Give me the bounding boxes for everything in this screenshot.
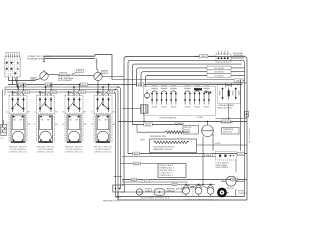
svg-text:BK/R: BK/R xyxy=(141,139,146,141)
svg-text:L2: L2 xyxy=(91,124,93,126)
svg-text:L2: L2 xyxy=(62,124,64,126)
svg-text:RD-1: RD-1 xyxy=(168,190,172,192)
svg-text:HIDDEN BAKE ELEMENT (S) A: HIDDEN BAKE ELEMENT (S) A xyxy=(141,196,170,199)
svg-text:RD2: RD2 xyxy=(103,72,107,74)
svg-text:OVEN DOOR SW: OVEN DOOR SW xyxy=(248,128,250,143)
svg-text:L2: L2 xyxy=(6,124,8,126)
svg-text:CONV 4 W-1 1: CONV 4 W-1 1 xyxy=(160,175,174,177)
svg-text:AB GY-30 WH: AB GY-30 WH xyxy=(221,121,234,124)
svg-text:H2: H2 xyxy=(113,124,115,126)
svg-text:RD-8: RD-8 xyxy=(135,163,139,165)
svg-text:SWITCH 2: SWITCH 2 xyxy=(223,131,232,133)
svg-text:BU-1: BU-1 xyxy=(144,181,148,183)
svg-text:L1: L1 xyxy=(6,111,8,113)
svg-text:BU-1: BU-1 xyxy=(134,153,138,155)
svg-text:SUP ELEMENT: SUP ELEMENT xyxy=(58,80,73,82)
svg-text:BK A-1: BK A-1 xyxy=(116,196,121,199)
svg-text:L1: L1 xyxy=(62,111,64,113)
svg-text:GY-30 BU: GY-30 BU xyxy=(215,75,224,77)
svg-text:BK-30: BK-30 xyxy=(145,124,150,126)
svg-text:H1: H1 xyxy=(55,111,57,113)
svg-text:RD-8: RD-8 xyxy=(109,92,113,94)
svg-text:RD-6: RD-6 xyxy=(82,84,86,86)
svg-text:L-CORD: L-CORD xyxy=(196,117,204,119)
svg-text:H2: H2 xyxy=(28,124,30,126)
svg-text:(WIRING CIRCUIT): (WIRING CIRCUIT) xyxy=(37,151,54,153)
svg-text:LOWER # EL PROTECTOR (S): LOWER # EL PROTECTOR (S) xyxy=(185,199,214,201)
svg-text:BROIL 240V (2): BROIL 240V (2) xyxy=(218,108,232,110)
svg-text:GY30: GY30 xyxy=(238,154,243,156)
svg-text:CONVECT: CONVECT xyxy=(238,193,248,195)
svg-text:BAKE ASSY W10-P2: BAKE ASSY W10-P2 xyxy=(154,148,174,151)
svg-text:RESISTANCE FILM: RESISTANCE FILM xyxy=(150,135,166,138)
svg-text:L2: L2 xyxy=(34,124,36,126)
svg-text:RD-8: RD-8 xyxy=(24,92,28,94)
svg-text:RD-8: RD-8 xyxy=(51,92,55,94)
svg-text:MOTOR: MOTOR xyxy=(227,188,234,190)
svg-text:WH-8: WH-8 xyxy=(236,80,241,82)
svg-text:L1: L1 xyxy=(34,111,36,113)
svg-text:BK-6: BK-6 xyxy=(138,84,142,86)
svg-text:TERMINAL 2: TERMINAL 2 xyxy=(233,54,246,57)
svg-text:H2: H2 xyxy=(84,124,86,126)
svg-text:(WIRING CIRCUIT): (WIRING CIRCUIT) xyxy=(10,151,27,153)
svg-text:WH-8: WH-8 xyxy=(206,155,211,157)
svg-text:(WIRING CIRCUIT): (WIRING CIRCUIT) xyxy=(66,151,83,153)
svg-text:H1: H1 xyxy=(113,111,115,113)
svg-text:(WIRING CIRCUIT): (WIRING CIRCUIT) xyxy=(95,151,112,153)
svg-text:GY-30 RD: GY-30 RD xyxy=(214,72,224,74)
svg-text:L1: L1 xyxy=(91,111,93,113)
svg-text:H2: H2 xyxy=(55,124,57,126)
svg-text:H1: H1 xyxy=(28,111,30,113)
svg-text:SOLENOID: SOLENOID xyxy=(175,123,185,125)
svg-text:OVEN CONTROL: OVEN CONTROL xyxy=(159,118,177,120)
svg-text:GY-30 WH: GY-30 WH xyxy=(214,68,224,70)
svg-text:RD-8: RD-8 xyxy=(78,71,82,73)
svg-text:TERMINALS (PIN): TERMINALS (PIN) xyxy=(27,58,44,61)
svg-text:HIGH TEMPS: HIGH TEMPS xyxy=(216,167,229,169)
svg-text:P-1: P-1 xyxy=(1,138,4,140)
svg-text:RD-8: RD-8 xyxy=(80,92,84,94)
svg-text:H1: H1 xyxy=(84,111,86,113)
svg-text:PRESS SW 1P 2P-1: PRESS SW 1P 2P-1 xyxy=(103,201,119,203)
svg-text:WH-8: WH-8 xyxy=(201,56,206,58)
svg-text:GY-30: GY-30 xyxy=(215,143,220,145)
